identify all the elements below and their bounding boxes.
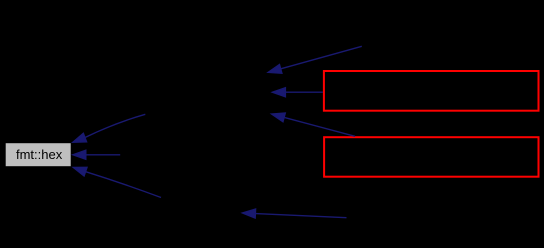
edge E3: node C -> fmt::hex (diagonal from lower right) [73, 167, 161, 197]
red node box 1 (truncated caller node) [324, 71, 539, 111]
edge E7: node E -> node C (long shallow diagonal, bottom) [242, 209, 346, 218]
edge E1: node A -> fmt::hex (diagonal from upper right) [73, 114, 146, 142]
edge E4: node D -> node A (long diagonal, top) [268, 46, 362, 73]
svg-text:fmt::hex: fmt::hex [16, 147, 63, 162]
node fmt::hex (focal node, grey fill, black border) [5, 143, 71, 167]
edge E5: red box 1 -> node A (horizontal) [272, 88, 323, 97]
edge E6: red box 2 -> node A (diagonal) [271, 113, 355, 136]
red node box 2 (truncated caller node) [324, 137, 538, 177]
edge E2: node B -> fmt::hex (horizontal) [73, 150, 121, 159]
